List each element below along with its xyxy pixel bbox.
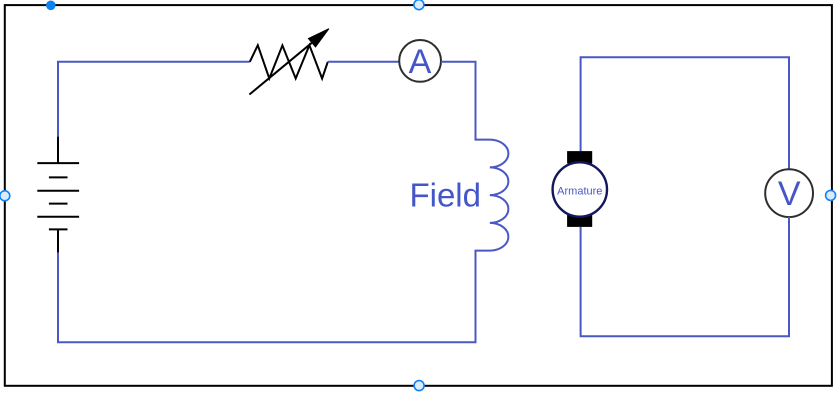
rheostat arrow head xyxy=(308,29,329,47)
motor armature xyxy=(553,151,607,227)
inductor Field coil xyxy=(476,139,509,252)
wire field coil to battery bottom xyxy=(58,251,476,343)
svg-text:A: A xyxy=(409,43,432,81)
wire ammeter to field coil xyxy=(441,62,476,140)
wire rheostat to ammeter xyxy=(328,61,399,63)
wire battery top to rheostat xyxy=(58,62,250,137)
battery xyxy=(37,137,79,253)
selection handle left xyxy=(0,191,10,201)
selection handle bottom xyxy=(414,381,424,391)
wire voltmeter to armature (bottom) xyxy=(581,217,789,336)
wire armature to voltmeter (top) xyxy=(581,57,789,169)
selection endpoint dot xyxy=(46,1,56,11)
svg-text:Armature: Armature xyxy=(557,185,602,197)
voltmeter V xyxy=(765,169,813,217)
ammeter A xyxy=(399,40,441,82)
svg-text:V: V xyxy=(778,175,801,213)
svg-text:Field: Field xyxy=(409,177,481,214)
rheostat (variable resistor) xyxy=(249,40,327,94)
selection handle top xyxy=(414,0,424,10)
selection handle right xyxy=(826,190,836,200)
